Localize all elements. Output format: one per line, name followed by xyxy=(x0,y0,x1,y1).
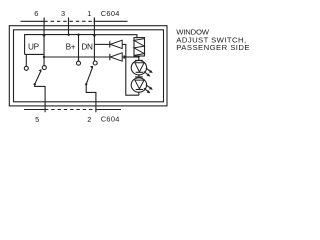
LED2 light arrow a xyxy=(146,85,151,89)
arrow pin6 entry xyxy=(42,35,45,37)
junction dot bus left xyxy=(43,56,45,58)
bus wire lower xyxy=(44,56,110,58)
junction dot left pivot xyxy=(34,83,36,85)
contact circle DN xyxy=(93,61,97,65)
wire UP contact stem xyxy=(25,54,27,66)
LED inter wire xyxy=(138,75,140,78)
LED2 out wire xyxy=(138,92,140,95)
svg-text:3: 3 xyxy=(61,9,65,18)
connector C604 top line xyxy=(21,20,45,22)
right switch arm xyxy=(86,67,93,85)
LED2 triangle xyxy=(135,80,144,89)
right pivot exit wire to pin 2 xyxy=(86,84,96,112)
wire B+ contact stem xyxy=(78,57,80,61)
pin 3 tick xyxy=(68,18,70,24)
left arm arrowhead xyxy=(39,69,42,72)
left pivot exit wire to pin 5 xyxy=(35,84,45,112)
resistor bottom wire xyxy=(138,56,140,60)
diode CR2 right wire xyxy=(122,56,124,58)
LED1 top bar xyxy=(135,59,143,61)
wire pin1 down xyxy=(93,18,95,62)
outer box xyxy=(9,26,167,106)
contact circle UP-right xyxy=(42,66,46,70)
resistor R1 zigzag xyxy=(134,39,144,56)
junction dot right pivot xyxy=(85,83,87,85)
bus wire to resistor xyxy=(95,35,137,39)
arrow pin1 entry xyxy=(93,35,96,37)
pin 1 tick xyxy=(93,18,95,24)
divider B+/DN xyxy=(78,35,80,62)
wire pin3 down xyxy=(68,18,70,35)
diode CR1 triangle xyxy=(110,40,122,48)
svg-text:DN: DN xyxy=(81,42,93,51)
svg-text:1: 1 xyxy=(87,9,91,18)
junction dot divider top xyxy=(77,34,79,36)
svg-text:6: 6 xyxy=(34,9,38,18)
svg-text:2: 2 xyxy=(87,115,91,124)
LED2 circle xyxy=(131,78,146,92)
LED1 triangle xyxy=(135,63,144,72)
svg-text:B+: B+ xyxy=(66,42,76,51)
pin 6 tick xyxy=(43,18,45,24)
contact circle B+ xyxy=(77,61,81,65)
contact circle UP-left xyxy=(24,66,28,70)
right arm arrowhead xyxy=(90,66,93,69)
LED2 top bar xyxy=(135,76,143,78)
arrow diode junction xyxy=(124,55,127,59)
junction dot resistor bottom xyxy=(137,56,139,58)
diode CR2 cathode bar xyxy=(109,54,111,60)
diode CR1 wires xyxy=(95,43,110,45)
diode CR1 cathode bar xyxy=(109,41,111,47)
inner box xyxy=(14,30,164,102)
svg-text:C604: C604 xyxy=(101,114,120,123)
LED1 light arrow b xyxy=(144,72,149,76)
diode CR2 triangle xyxy=(110,53,122,61)
LED2 cathode bar xyxy=(136,89,143,91)
bottom connector line xyxy=(24,109,45,111)
resistor R1 box xyxy=(134,38,145,56)
svg-text:5: 5 xyxy=(35,115,39,124)
LED2 light arrow b xyxy=(144,88,149,92)
junction dot pin3 xyxy=(68,34,70,36)
LED1 circle xyxy=(131,60,146,74)
wire pin6 down xyxy=(43,18,45,58)
svg-text:C604: C604 xyxy=(101,9,120,18)
left switch arm xyxy=(35,71,41,84)
LED1 cathode bar xyxy=(136,71,143,73)
wire left contact stem xyxy=(43,57,45,66)
svg-text:PASSENGER SIDE: PASSENGER SIDE xyxy=(176,43,250,52)
switch cell box xyxy=(25,35,95,55)
LED1 light arrow a xyxy=(146,68,151,72)
svg-text:UP: UP xyxy=(28,42,40,51)
